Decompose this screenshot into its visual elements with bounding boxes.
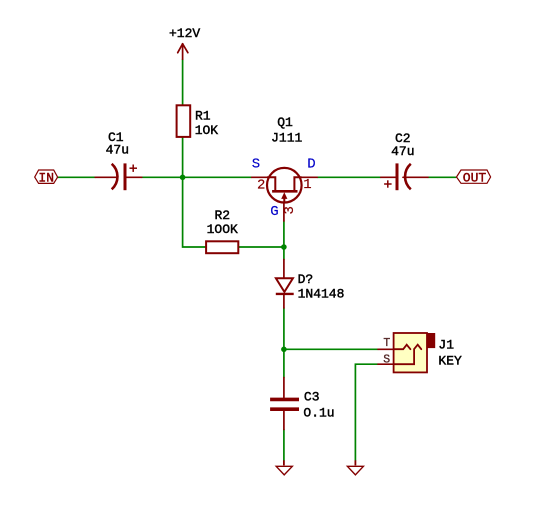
svg-text:IN: IN (38, 171, 54, 186)
svg-text:+12V: +12V (169, 26, 200, 41)
svg-text:T: T (383, 337, 390, 350)
svg-text:KEY: KEY (438, 354, 462, 369)
svg-text:47u: 47u (391, 144, 414, 159)
svg-text:47u: 47u (106, 142, 129, 157)
svg-text:OUT: OUT (463, 170, 487, 185)
svg-text:1N4148: 1N4148 (298, 287, 345, 302)
svg-text:R1: R1 (195, 109, 211, 124)
svg-text:1OK: 1OK (195, 123, 219, 138)
svg-text:D: D (307, 157, 315, 173)
svg-text:J111: J111 (271, 130, 302, 145)
svg-text:1OOK: 1OOK (207, 222, 238, 237)
svg-text:1: 1 (303, 177, 311, 193)
svg-text:O.1u: O.1u (303, 406, 334, 421)
svg-text:C3: C3 (304, 390, 320, 405)
svg-text:D?: D? (298, 272, 314, 287)
svg-text:2: 2 (257, 177, 265, 193)
svg-text:R2: R2 (215, 208, 231, 223)
svg-text:S: S (252, 157, 260, 173)
svg-text:J1: J1 (438, 338, 454, 353)
svg-text:3: 3 (282, 206, 298, 214)
svg-text:G: G (270, 204, 278, 220)
svg-text:S: S (383, 353, 390, 366)
svg-text:Q1: Q1 (277, 115, 293, 130)
